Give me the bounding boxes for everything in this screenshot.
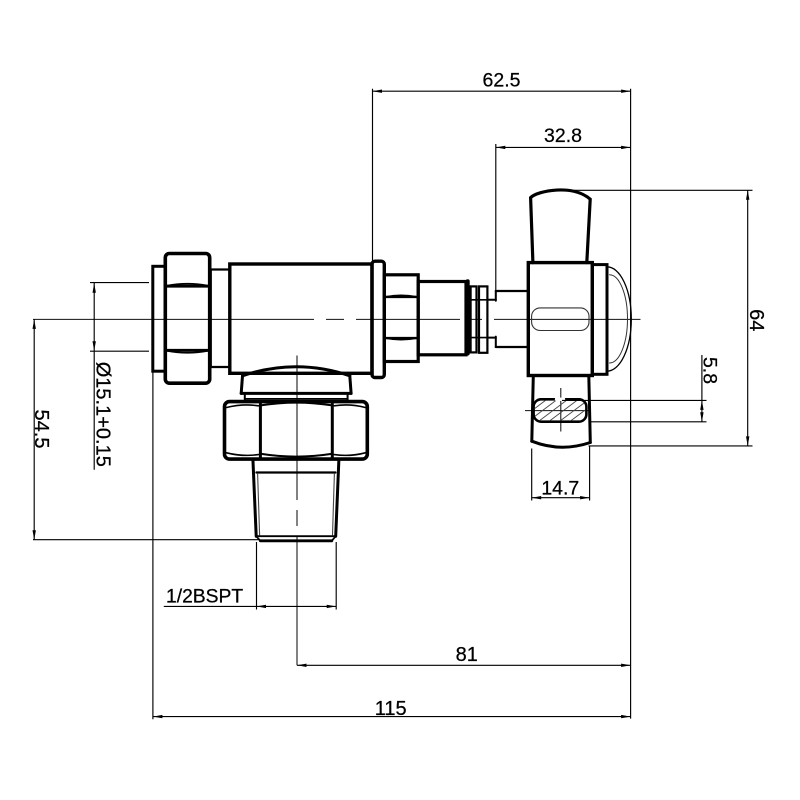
svg-text:54.5: 54.5 (30, 410, 52, 449)
svg-text:5.8: 5.8 (698, 357, 720, 384)
svg-text:1/2BSPT: 1/2BSPT (166, 587, 243, 608)
svg-text:14.7: 14.7 (541, 478, 579, 500)
svg-text:64: 64 (745, 309, 767, 331)
svg-text:32.8: 32.8 (544, 125, 582, 147)
svg-text:115: 115 (375, 698, 407, 720)
svg-text:81: 81 (456, 644, 478, 666)
svg-text:Ø15.1+0.15: Ø15.1+0.15 (92, 362, 114, 467)
svg-text:62.5: 62.5 (483, 69, 521, 91)
